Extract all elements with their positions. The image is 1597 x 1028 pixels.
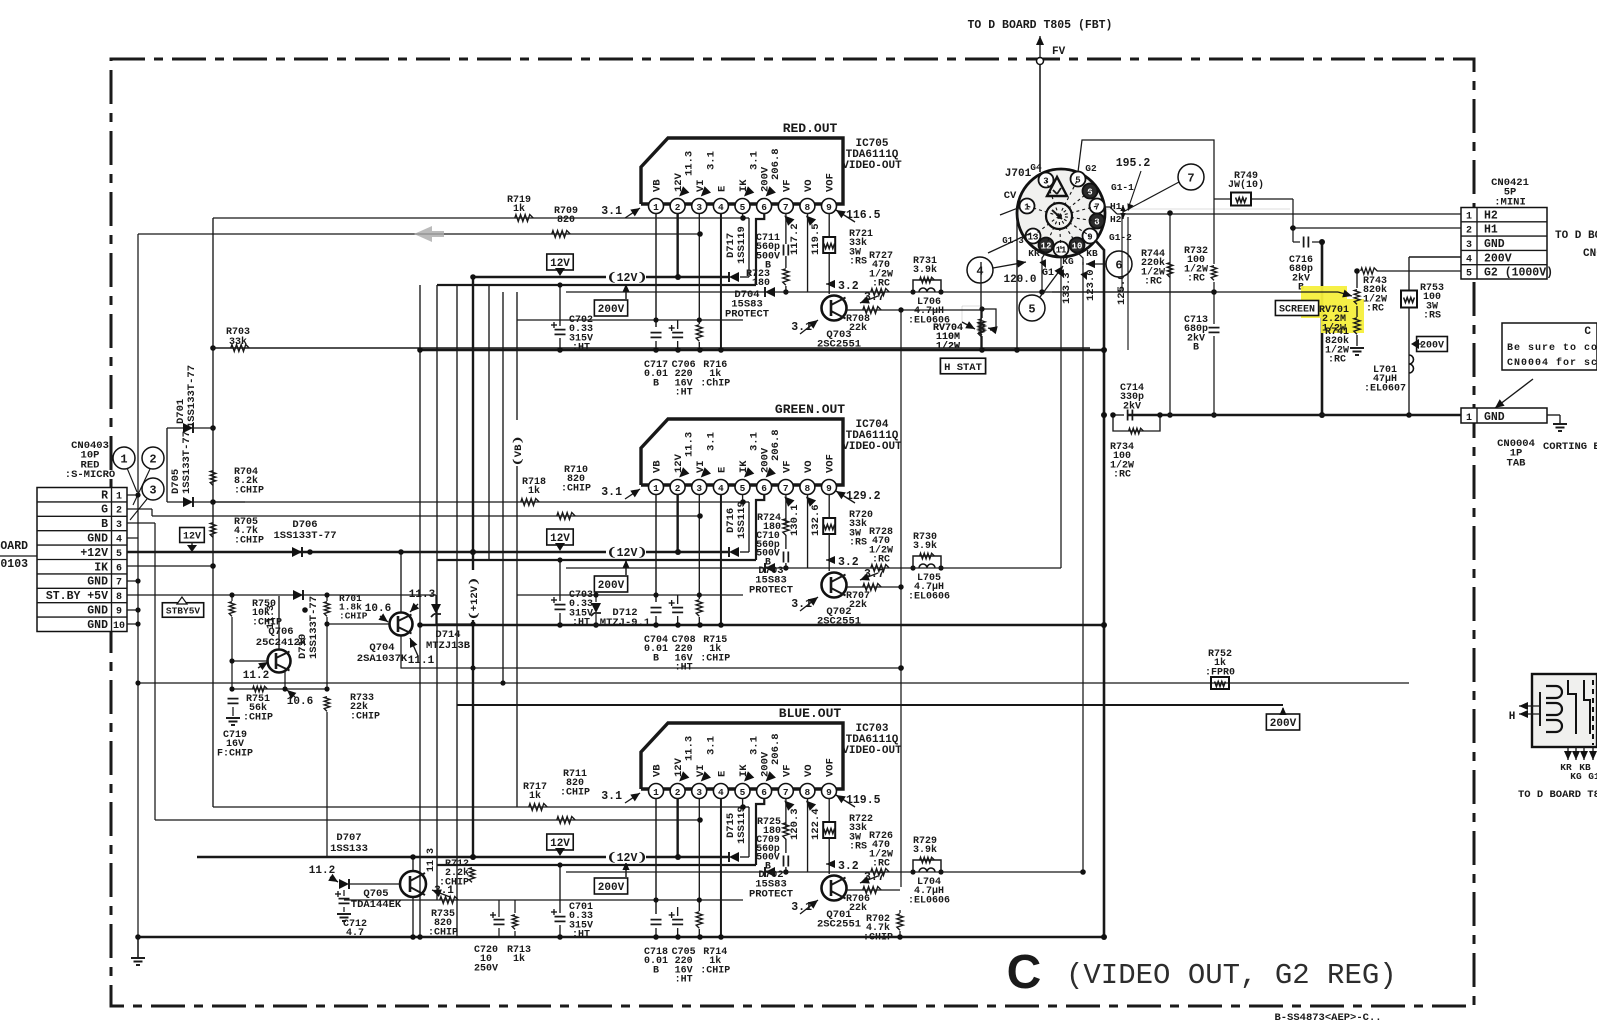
- wire STBY row: [127, 594, 436, 596]
- svg-text:8: 8: [805, 202, 811, 213]
- wire loop vertical x457: [456, 285, 458, 937]
- svg-text:CV: CV: [1004, 190, 1017, 202]
- bus 200V long row: [457, 704, 1283, 706]
- svg-text::RC: :RC: [872, 859, 890, 870]
- junction: [718, 347, 724, 353]
- svg-text:VB: VB: [652, 460, 664, 473]
- svg-text:4.7: 4.7: [346, 928, 364, 939]
- svg-text:GND: GND: [87, 576, 108, 589]
- junction: [470, 854, 476, 860]
- capacitor C718: [644, 920, 668, 977]
- wire pin9 column: [828, 213, 830, 237]
- net label 12V box: [547, 834, 573, 856]
- wire G1-1 down: [1121, 214, 1123, 292]
- resistor R708 22k (emitter): [846, 307, 982, 335]
- wire Q704 collector to 12V: [400, 552, 402, 612]
- junction: [979, 347, 985, 353]
- wire pin4 column: [720, 213, 722, 350]
- pin 1 of IC704: [649, 480, 664, 495]
- leader 5: [1040, 266, 1063, 297]
- svg-text::EL0606: :EL0606: [908, 895, 950, 906]
- junction: [740, 499, 746, 505]
- resistor R702 4.7k :CHIP: [863, 910, 903, 943]
- resistor R711 820 :CHIP: [557, 769, 590, 824]
- svg-text:GREEN.OUT: GREEN.OUT: [775, 402, 845, 417]
- svg-text:11.2: 11.2: [243, 670, 269, 682]
- capacitor C711 560p 500V B: [756, 233, 788, 272]
- svg-text:200V: 200V: [1270, 718, 1297, 730]
- svg-text:MTZJ-9.1: MTZJ-9.1: [600, 617, 650, 629]
- CRT neck pin diagram box: [1532, 674, 1597, 747]
- svg-text:KB: KB: [1086, 248, 1098, 259]
- dashed spoke: [1059, 191, 1090, 216]
- resistor R710 820 :CHIP: [557, 465, 591, 520]
- capacitor C717: [644, 333, 668, 390]
- svg-text:VO: VO: [803, 179, 815, 192]
- junction: [783, 565, 788, 570]
- svg-text:200V: 200V: [1484, 252, 1512, 265]
- svg-text::RS: :RS: [849, 842, 867, 853]
- svg-text:B: B: [101, 518, 108, 531]
- wire pin3 column: [698, 213, 700, 324]
- svg-text:6: 6: [761, 483, 767, 494]
- svg-text:2: 2: [675, 787, 681, 798]
- svg-text:TAB: TAB: [1507, 457, 1527, 469]
- svg-text:B: B: [1193, 343, 1199, 354]
- svg-text:3: 3: [116, 520, 122, 531]
- pointer Q704 base: [380, 616, 388, 622]
- wire CV from pin1 down to bus: [1017, 206, 1019, 350]
- junction: [470, 549, 476, 555]
- svg-text:7: 7: [783, 483, 789, 494]
- svg-text:6: 6: [761, 787, 767, 798]
- wire pin5 column: [742, 798, 744, 807]
- svg-text:6: 6: [116, 563, 122, 574]
- wire loop vertical x473 (12V riser): [472, 277, 474, 857]
- svg-text:3.1: 3.1: [749, 151, 761, 170]
- pin 11 of J701: [1054, 242, 1069, 257]
- svg-text:3.2: 3.2: [838, 860, 859, 873]
- junction: [1101, 412, 1107, 418]
- diode D717 1SS119: [725, 218, 749, 282]
- bus 12V main (+12V from CN0403): [127, 551, 728, 553]
- svg-text:3.2: 3.2: [838, 280, 859, 293]
- svg-text:122.4: 122.4: [810, 808, 822, 840]
- pin 1 of IC705: [649, 199, 664, 214]
- capacitor C703 0.33 315V :HT: [551, 557, 593, 628]
- svg-text:2: 2: [1466, 226, 1472, 237]
- svg-text:9: 9: [826, 787, 832, 798]
- svg-text:1SS119: 1SS119: [736, 501, 748, 539]
- svg-text:11.3: 11.3: [684, 432, 696, 457]
- wire KR column to RED 3.2 row: [1042, 252, 1046, 292]
- junction: [135, 680, 140, 685]
- svg-text:206.8: 206.8: [770, 148, 782, 180]
- svg-text:4: 4: [718, 483, 724, 494]
- svg-text:2: 2: [149, 453, 156, 467]
- svg-text:1SS133T-77: 1SS133T-77: [308, 596, 320, 659]
- svg-text:3.9k: 3.9k: [913, 264, 937, 276]
- pointer Q704 coll: [410, 604, 418, 612]
- svg-text:G2 (1000V): G2 (1000V): [1484, 267, 1553, 280]
- svg-text:3.1: 3.1: [749, 736, 761, 755]
- wire pin1 column: [655, 213, 657, 327]
- svg-text:33k: 33k: [229, 336, 247, 348]
- svg-text:22k: 22k: [849, 322, 867, 334]
- pin 8 of IC705: [800, 199, 815, 214]
- svg-text:VIDEO-OUT: VIDEO-OUT: [842, 160, 902, 172]
- svg-text:G1-2: G1-2: [1109, 232, 1132, 243]
- svg-text:2SA1037K: 2SA1037K: [357, 653, 408, 665]
- svg-text:10: 10: [113, 621, 125, 632]
- junction: [324, 592, 329, 597]
- pointer arrows under pins 7,8: [784, 801, 794, 811]
- svg-text:B: B: [653, 965, 659, 976]
- svg-text:3.9k: 3.9k: [913, 844, 937, 856]
- pin 3 of IC704: [692, 480, 707, 495]
- wire R row: [127, 494, 140, 496]
- resistor R731 3.9k and inductor L706 4.7uH parallel: [908, 256, 950, 326]
- pin 1 of J701: [1020, 199, 1035, 214]
- svg-text:133.3: 133.3: [1061, 272, 1073, 304]
- capacitor C720 10 250V: [474, 900, 505, 974]
- diode D706 1SS133T-77: [273, 519, 336, 557]
- junction: [653, 622, 659, 628]
- pointer arrows at pins 2,3,5,6: [679, 186, 689, 196]
- svg-text:CORTING EA: CORTING EA: [1543, 441, 1597, 453]
- wire pin8 column: [807, 798, 809, 872]
- wire pin4 column: [720, 494, 722, 625]
- junction: [1101, 622, 1107, 628]
- svg-text:1k: 1k: [513, 203, 525, 215]
- junction: [675, 934, 681, 940]
- circled 5: [1019, 295, 1045, 321]
- pin 2 of IC705: [670, 199, 685, 214]
- capacitor C713 680p 2kV B: [1184, 315, 1220, 418]
- note box: Be sure to connect CN0004: [1502, 323, 1597, 370]
- junction: [1354, 268, 1360, 274]
- capacitor C702 0.33 315V :HT: [551, 282, 593, 353]
- svg-text:JW(10): JW(10): [1228, 179, 1264, 191]
- svg-text:2SC2551: 2SC2551: [817, 919, 861, 931]
- junction: [1290, 225, 1296, 231]
- svg-text:KR: KR: [1028, 248, 1040, 259]
- wire Q706 emitter: [284, 671, 286, 689]
- junction: [210, 499, 216, 505]
- dashed spoke: [1059, 216, 1077, 245]
- svg-text:C: C: [1007, 946, 1042, 999]
- net label H STAT: [940, 358, 985, 374]
- svg-text:25C2412K: 25C2412K: [256, 637, 307, 649]
- dashed spoke: [1059, 206, 1097, 216]
- svg-text:F:CHIP: F:CHIP: [217, 748, 253, 759]
- svg-text:GND: GND: [1484, 411, 1505, 424]
- bus RED main (200V rail): [420, 349, 1104, 352]
- svg-text:J701: J701: [1005, 168, 1032, 180]
- junction: [675, 274, 681, 280]
- resistor R706 22k (emitter): [846, 887, 900, 915]
- junction: [1319, 239, 1325, 245]
- svg-text:H2: H2: [1484, 209, 1498, 222]
- junction: [470, 621, 475, 626]
- svg-text:IK: IK: [94, 561, 108, 574]
- pin 9 of IC704: [822, 480, 837, 495]
- junction: [470, 274, 476, 280]
- svg-text:3.1: 3.1: [601, 486, 622, 499]
- pointer Q705 base: [330, 877, 338, 882]
- node 1 (R in): [113, 447, 135, 469]
- pin 3 of IC705: [692, 199, 707, 214]
- junction: [593, 592, 598, 597]
- svg-text::CHIP: :CHIP: [700, 653, 730, 664]
- junction: [135, 492, 140, 497]
- svg-text:❨12V❩: ❨12V❩: [607, 271, 647, 285]
- pin 9 of IC705: [822, 199, 837, 214]
- capacitor C705: [669, 907, 696, 986]
- svg-text:200V: 200V: [598, 580, 625, 592]
- junction: [898, 584, 903, 589]
- capacitor C708: [669, 595, 696, 674]
- junction: [675, 622, 681, 628]
- leader to CN0004: [1495, 379, 1533, 408]
- junction: [653, 592, 658, 597]
- svg-text:(VIDEO OUT, G2 REG): (VIDEO OUT, G2 REG): [1066, 959, 1397, 992]
- svg-text:1k: 1k: [528, 485, 540, 497]
- wire VB row: [344, 899, 743, 901]
- pin 2 of IC703: [670, 784, 685, 799]
- wire Q705 emitter: [412, 897, 414, 937]
- svg-text:3.2: 3.2: [838, 556, 859, 569]
- zener D714 MTZJ13B: [426, 595, 476, 652]
- junction: [910, 869, 915, 874]
- svg-text:5: 5: [1028, 303, 1035, 317]
- resistor R726 470 1/2W :RC on 3.2 line: [869, 831, 893, 876]
- pin 8 of IC704: [800, 480, 815, 495]
- bus right (at y415): [1128, 414, 1461, 417]
- pointer arrows at pins 2,3,5,6: [679, 467, 689, 477]
- wire loop vertical x489: [488, 285, 490, 560]
- svg-text::RS: :RS: [849, 257, 867, 268]
- capacitor C716 680p 2kV B: [1289, 237, 1322, 294]
- junction: [910, 565, 915, 570]
- pin 8 of J701: [1090, 214, 1105, 229]
- pointer Q704 emit: [410, 638, 418, 656]
- wire GND stubs from CN0403: [127, 537, 138, 539]
- diode D701 1SS133T-77: [167, 365, 213, 433]
- node FV to D board T805: [968, 19, 1113, 172]
- junction: [653, 317, 658, 322]
- junction: [1101, 934, 1107, 940]
- svg-text:5: 5: [1466, 269, 1472, 280]
- bus BLUE main (bottom): [137, 936, 1104, 939]
- svg-text:11.2: 11.2: [309, 865, 335, 877]
- resistor R715: [696, 600, 730, 665]
- pin 2 of IC704: [670, 480, 685, 495]
- svg-text:3: 3: [149, 484, 156, 498]
- resistor R716: [696, 325, 730, 390]
- svg-text:C: C: [1584, 326, 1591, 338]
- svg-text:+12V: +12V: [80, 547, 108, 560]
- wire pin5 column: [742, 494, 744, 502]
- inductor L701 47uH :EL0607: [1364, 355, 1414, 394]
- junction: [410, 934, 416, 940]
- connector CN0403 10P RED :S-MICRO: [37, 440, 127, 632]
- resistor R732 100 1/2W :RC: [1184, 246, 1217, 324]
- diode D705 1SS133T-77: [167, 428, 245, 507]
- wire R video row RED: [138, 233, 700, 235]
- wire H2 row to CN0421 pin1: [1117, 213, 1461, 215]
- pin 5 of IC705: [735, 199, 750, 214]
- svg-text:SCREEN: SCREEN: [1279, 305, 1315, 316]
- svg-text::FPR0: :FPR0: [1205, 667, 1235, 678]
- wire G video row GREEN: [152, 515, 700, 517]
- svg-text:130.1: 130.1: [789, 504, 801, 536]
- svg-text:❨+12V❩: ❨+12V❩: [468, 577, 481, 620]
- svg-text:STBY5V: STBY5V: [166, 605, 201, 616]
- svg-text:6: 6: [761, 202, 767, 213]
- wire Q704 base row: [327, 623, 389, 625]
- svg-text:1: 1: [120, 453, 127, 467]
- junction: [135, 621, 140, 626]
- dashed spoke: [1033, 216, 1059, 236]
- wire H1 row step: [1104, 207, 1117, 214]
- svg-text:PROTECT: PROTECT: [749, 888, 793, 900]
- dashed spoke: [1046, 216, 1059, 245]
- circled 6: [1106, 251, 1132, 277]
- resistor R735 820 :CHIP: [428, 897, 458, 939]
- pin 9 of J701: [1083, 229, 1098, 244]
- junction: [979, 306, 984, 311]
- resistor R752 1k :FPR0: [1205, 649, 1235, 689]
- svg-text:22k: 22k: [849, 902, 867, 914]
- wire pin9 column: [828, 494, 830, 518]
- svg-text:11.3: 11.3: [684, 736, 696, 761]
- svg-text:RED.OUT: RED.OUT: [783, 121, 838, 136]
- svg-text:3: 3: [696, 202, 702, 213]
- wire loop vertical x503: [502, 292, 504, 683]
- svg-text:1/2W: 1/2W: [936, 340, 960, 352]
- svg-text:4: 4: [976, 265, 983, 279]
- wire thick C716 to bus: [1321, 242, 1324, 415]
- net name <12V> on bus: [606, 850, 647, 865]
- wire pin2 column (12V): [676, 494, 678, 552]
- resistor R714: [696, 912, 730, 977]
- arrow KB: [1080, 271, 1087, 280]
- svg-text:5: 5: [116, 549, 122, 560]
- svg-text::RC: :RC: [872, 555, 890, 566]
- pin 7 of IC705: [778, 199, 793, 214]
- resistor R733 22k :CHIP: [324, 693, 380, 857]
- svg-text:❨12V❩: ❨12V❩: [607, 546, 647, 560]
- svg-text:3: 3: [1466, 240, 1472, 251]
- wire pin7 column: [785, 798, 787, 829]
- pin 6 of IC703: [757, 784, 772, 799]
- resistor R709 820: [552, 206, 578, 238]
- svg-text:BOARD: BOARD: [0, 540, 28, 553]
- wire loop vertical x420: [419, 285, 421, 937]
- wire pin3 column: [698, 798, 700, 911]
- svg-text:180: 180: [752, 278, 770, 289]
- svg-text:8: 8: [805, 787, 811, 798]
- svg-text:3.1: 3.1: [749, 432, 761, 451]
- arrow KG: [1057, 269, 1064, 278]
- svg-text:1: 1: [653, 787, 659, 798]
- net label 200V box with arrow: [594, 560, 629, 592]
- net label H STAT: [940, 358, 985, 374]
- pin 10 of J701: [1070, 238, 1085, 253]
- resistor R753 100 3W :RS: [1401, 257, 1444, 418]
- resistor R750 10k :CHIP: [229, 592, 282, 689]
- svg-text:3.1: 3.1: [705, 736, 717, 755]
- svg-text:5: 5: [1075, 176, 1080, 186]
- net name <+12V> vertical: [467, 570, 479, 620]
- wire CV diagonal: [1000, 208, 1018, 215]
- junction: [557, 862, 562, 867]
- net label 12V box: [547, 254, 573, 276]
- svg-text:MTZJ13B: MTZJ13B: [426, 640, 471, 652]
- pin 7 of IC703: [778, 784, 793, 799]
- svg-text::HT: :HT: [572, 618, 590, 629]
- wire KB elbow: [1077, 252, 1083, 265]
- svg-text:H: H: [1509, 711, 1516, 723]
- H arrows: [1519, 705, 1540, 707]
- diode D715 1SS119: [725, 806, 749, 862]
- wire R749 row: [1214, 198, 1231, 200]
- wire pin2 column (12V): [676, 213, 678, 277]
- svg-text:1k: 1k: [513, 953, 525, 965]
- connector CN0421 5P :MINI: [1461, 177, 1553, 280]
- svg-text:3.1: 3.1: [705, 151, 717, 170]
- svg-text:195.2: 195.2: [1116, 157, 1151, 170]
- wire 200V riser x1104: [1095, 240, 1104, 937]
- CRT socket J701: [1017, 169, 1105, 257]
- svg-text:7: 7: [1187, 172, 1194, 186]
- svg-text:11.3: 11.3: [409, 589, 436, 601]
- svg-text:5: 5: [740, 787, 746, 798]
- svg-text:7: 7: [783, 787, 789, 798]
- wire aux row (thick): [437, 284, 756, 286]
- wire B video row BLUE: [155, 819, 700, 821]
- diode D702 15S83 PROTECT: [749, 867, 793, 900]
- transistor Q703 2SC2551: [817, 296, 861, 351]
- wire 12V BLUE: [197, 856, 728, 858]
- wire aux row (thick): [437, 864, 756, 866]
- zener D712 MTZJ-9.1: [591, 592, 650, 629]
- wire aux row (thick): [437, 559, 756, 561]
- svg-text:5: 5: [740, 202, 746, 213]
- transistor Q704 2SA1037K: [357, 613, 413, 666]
- dashed spoke: [1059, 179, 1078, 216]
- net label 200V (right): [1266, 707, 1299, 730]
- pin 6 of J701: [1083, 184, 1098, 199]
- pin 3 of J701: [1039, 173, 1054, 188]
- wire pin2 column (12V): [676, 798, 678, 857]
- svg-text:12: 12: [1041, 242, 1052, 252]
- junction: [938, 565, 943, 570]
- wire pin3 column: [698, 494, 700, 599]
- op-amp/IC IC704 GREEN.OUT body: [641, 419, 843, 485]
- pin 5 of IC703: [735, 784, 750, 799]
- leader: [127, 468, 137, 492]
- wire GND row to CN0004: [1409, 414, 1461, 416]
- pin 6 of IC705: [757, 199, 772, 214]
- svg-text:G1-1: G1-1: [1111, 182, 1134, 193]
- wire KG column to GREEN 3.2 row: [1060, 256, 1062, 568]
- wire VB row: [517, 319, 743, 321]
- wire 3.2 row BLUE: [566, 871, 1083, 873]
- diode D716 1SS119: [725, 501, 749, 557]
- resistor R728 470 1/2W :RC on 3.2 line: [869, 527, 893, 572]
